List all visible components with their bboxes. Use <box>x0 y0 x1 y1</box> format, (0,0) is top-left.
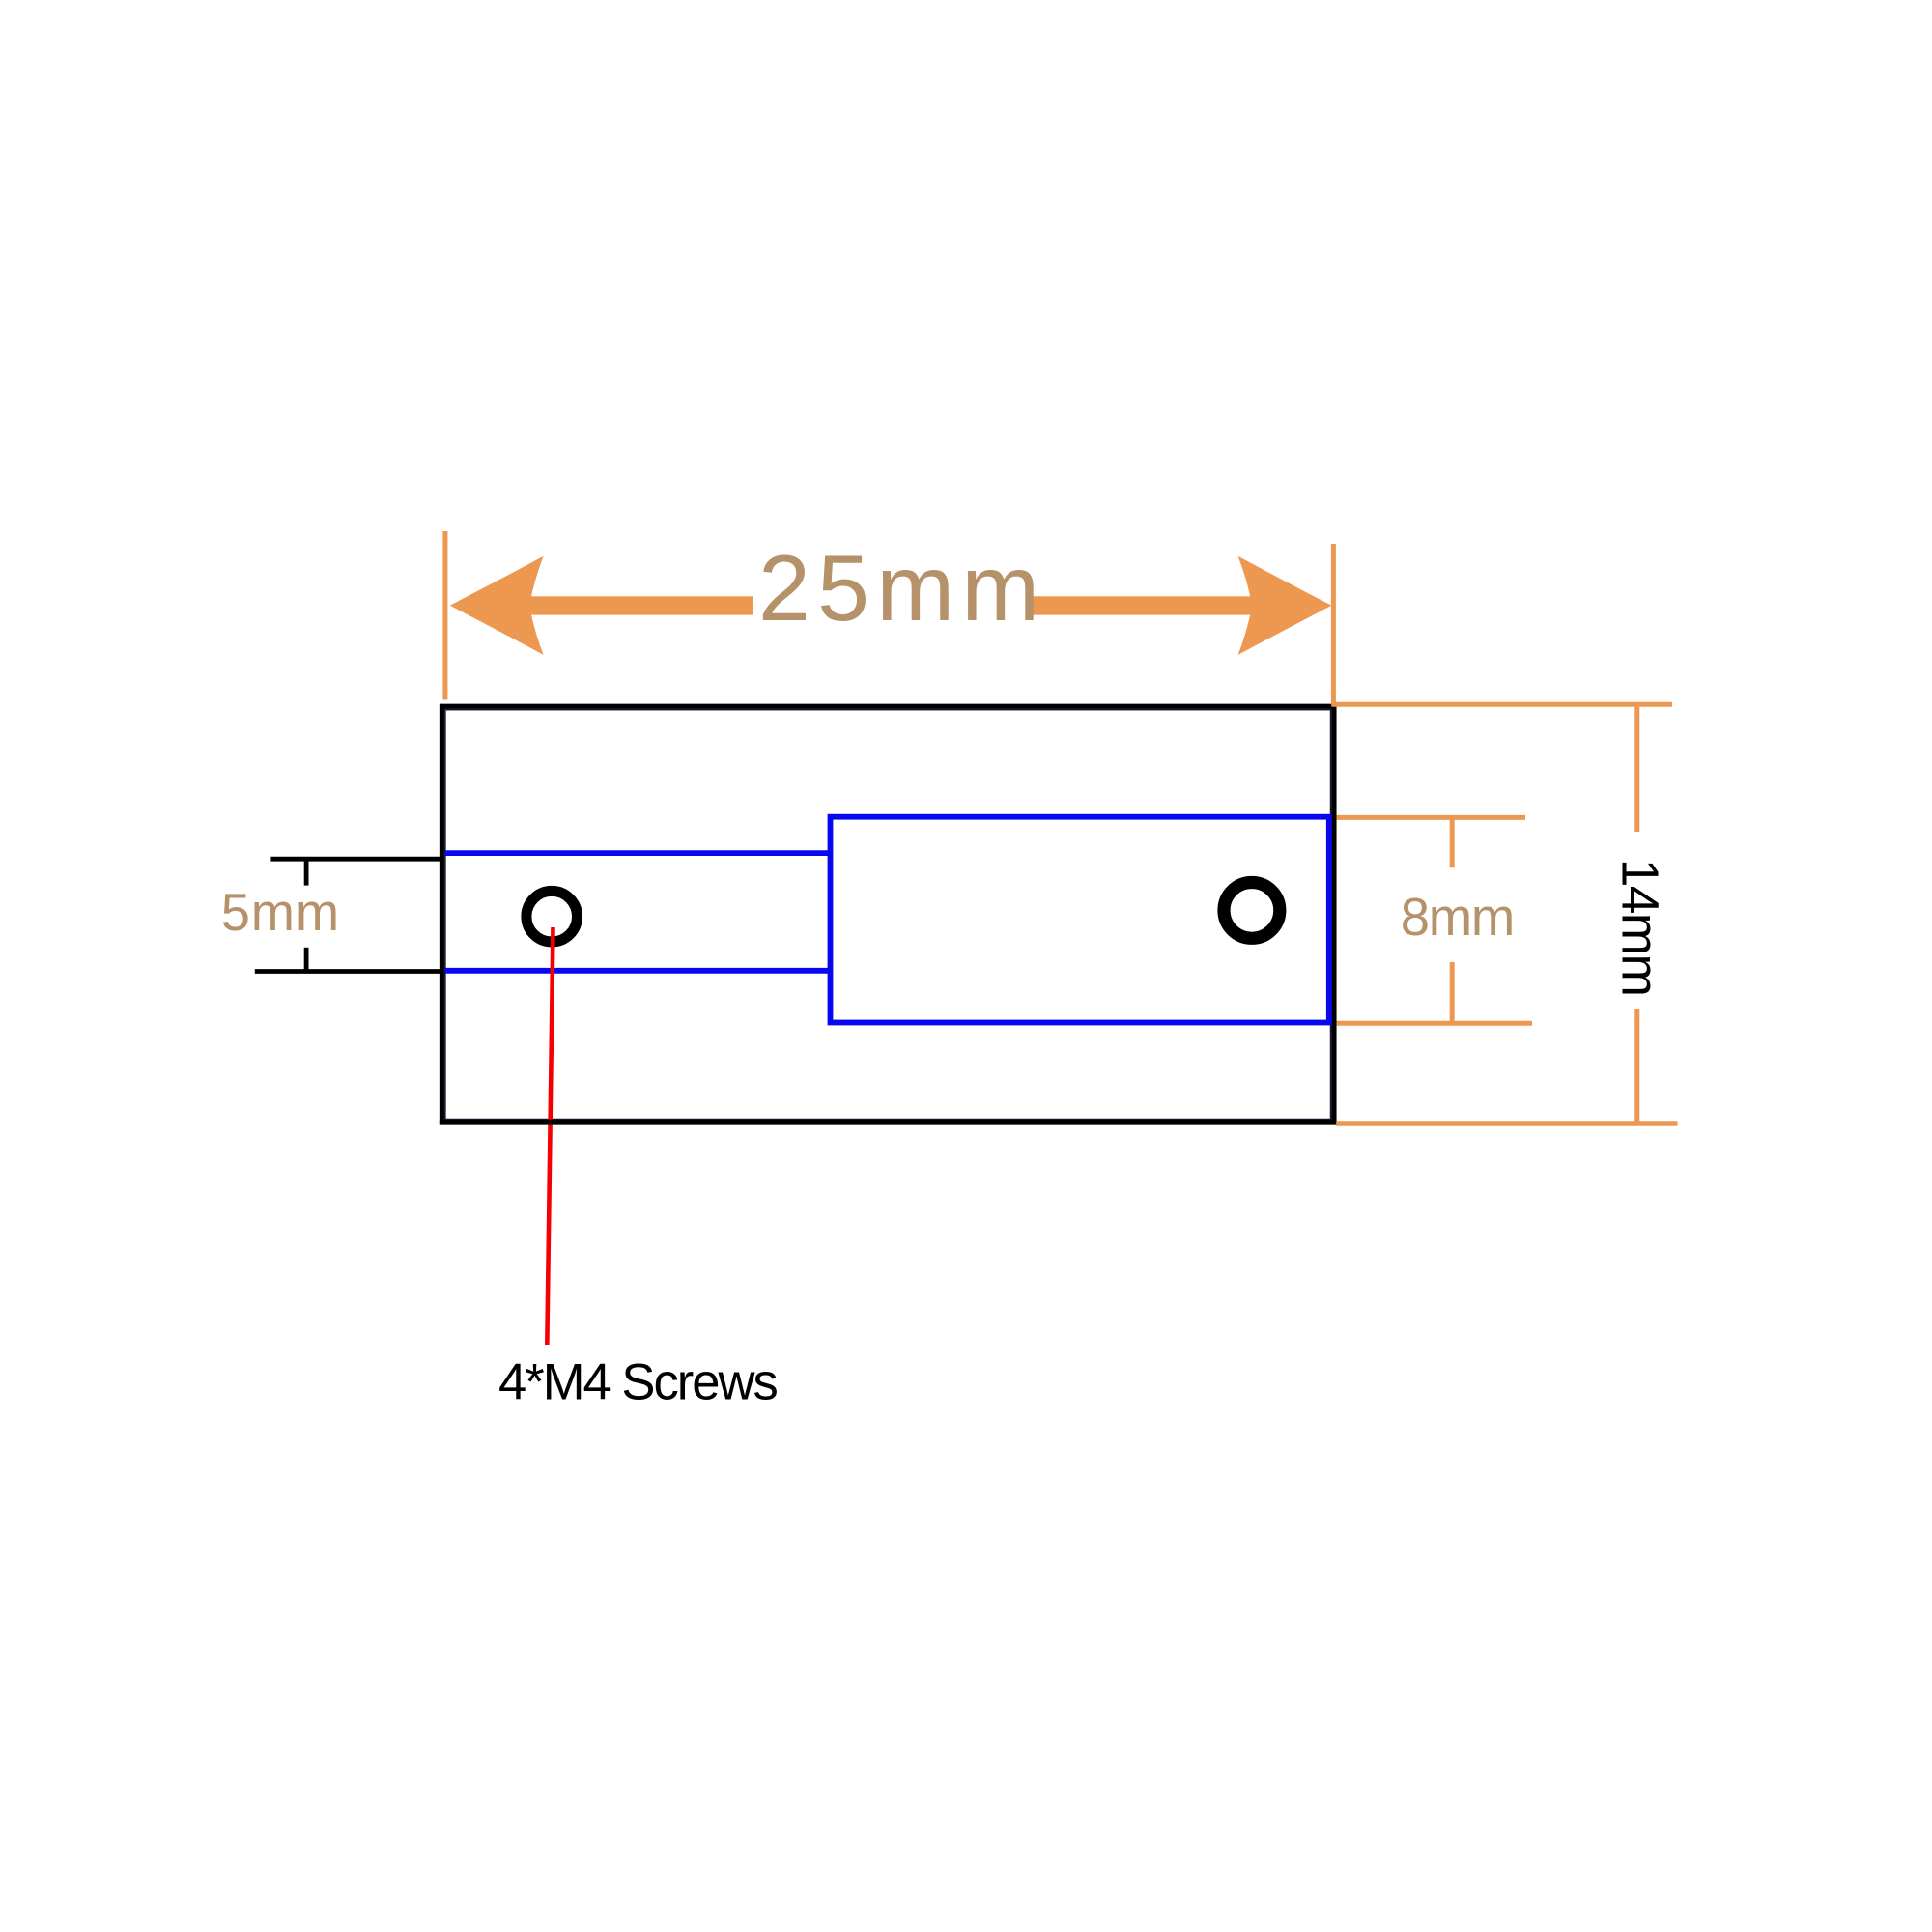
svg-text:5mm: 5mm <box>221 883 340 942</box>
svg-text:14mm: 14mm <box>1611 859 1668 995</box>
svg-text:8mm: 8mm <box>1401 888 1514 947</box>
svg-text:4*M4 Screws: 4*M4 Screws <box>498 1354 778 1411</box>
svg-text:25mm: 25mm <box>758 535 1046 640</box>
